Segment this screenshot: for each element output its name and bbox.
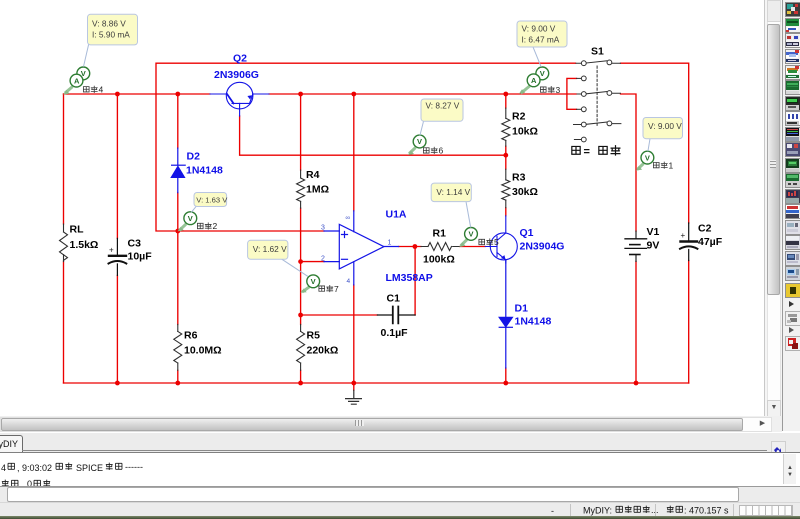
taskbar sliver: [0, 516, 800, 519]
svg-text:C3: C3: [128, 238, 142, 250]
svg-text:2: 2: [321, 256, 325, 263]
log panel mini scrollbar: [783, 454, 796, 484]
resistor R6: [174, 324, 182, 370]
probe 3 (A+V): [519, 67, 561, 95]
spreadsheet / log panel: [0, 452, 800, 488]
wire R1 to Q1 base: [460, 246, 486, 248]
results strip: [0, 487, 800, 502]
wire bottom ground rail: [64, 382, 689, 384]
node D2 top: [175, 92, 180, 97]
capacitor C2 (electrolytic): [680, 223, 697, 261]
probe 5 (V): [459, 228, 499, 248]
svg-text:S1: S1: [591, 46, 604, 58]
svg-text:R5: R5: [307, 330, 321, 342]
spreadsheet toggle icon: [771, 441, 786, 455]
resistor R2: [502, 108, 510, 146]
node opamp output: [413, 244, 418, 249]
svg-text:R3: R3: [512, 172, 526, 184]
node C3 bottom: [115, 381, 120, 386]
node V1 bottom: [634, 381, 639, 386]
svg-text:4: 4: [1, 463, 6, 473]
svg-text:4: 4: [99, 85, 104, 95]
v-scrollbar thumb: [767, 0, 781, 22]
svg-text:3: 3: [556, 85, 561, 95]
progress cells: [739, 505, 793, 516]
svg-text:RL: RL: [70, 224, 85, 236]
wire top rail y94 left (emitter side): [64, 93, 211, 95]
svg-text:C2: C2: [698, 223, 712, 235]
svg-text:5: 5: [494, 237, 499, 247]
probe 7 (V): [301, 275, 340, 294]
svg-text:+: +: [109, 246, 114, 255]
node C1 left tap: [298, 313, 303, 318]
svg-text:1: 1: [388, 240, 392, 247]
resistor RL: [60, 224, 68, 262]
svg-text:V: 9.00 V: V: 9.00 V: [648, 121, 682, 131]
node R5 bottom: [298, 381, 303, 386]
svg-text:R4: R4: [306, 169, 320, 181]
svg-text:Q2: Q2: [233, 53, 247, 65]
svg-text:R6: R6: [184, 330, 198, 342]
log line 1: [0, 453, 420, 486]
svg-text:: 470.157 s: : 470.157 s: [684, 506, 729, 516]
probe 6 (V): [408, 135, 444, 156]
svg-text:D2: D2: [187, 151, 201, 163]
svg-text:2N3906G: 2N3906G: [214, 69, 259, 81]
svg-text:C1: C1: [387, 293, 401, 305]
wire C2 bottom to ground rail: [688, 261, 690, 384]
svg-text:V: 1.63 V: V: 1.63 V: [196, 195, 228, 204]
svg-text:=: =: [584, 146, 590, 158]
svg-text:6: 6: [439, 146, 444, 156]
battery V1: [625, 231, 647, 261]
horizontal scrollbar of canvas: [0, 416, 782, 432]
wire Q2 base down and across to R2/R3 node: [240, 116, 506, 155]
probe 3 callout: [517, 21, 567, 67]
resistor R5: [297, 324, 305, 370]
svg-text:R1: R1: [433, 228, 447, 240]
label "key = space": [572, 146, 620, 155]
svg-text:4: 4: [347, 278, 351, 285]
svg-text:V: V: [540, 69, 545, 78]
resistor R4: [297, 170, 305, 208]
svg-text:1MΩ: 1MΩ: [306, 184, 329, 196]
svg-text:I: 5.90 mA: I: 5.90 mA: [92, 30, 130, 40]
svg-text:, 0: , 0: [22, 479, 32, 486]
svg-text:10kΩ: 10kΩ: [512, 126, 538, 138]
svg-text:R2: R2: [512, 111, 526, 123]
node R2 top: [503, 92, 508, 97]
probe 5 callout: [431, 183, 471, 227]
svg-text:V1: V1: [647, 226, 660, 238]
probe 1 (V): [636, 151, 674, 170]
svg-text:1N4148: 1N4148: [515, 316, 552, 328]
wire switch lower throw tie (rows 2-4): [567, 78, 577, 109]
node C3 top: [115, 92, 120, 97]
diode D2 (1N4148, cathode up): [171, 148, 185, 193]
wire D2 column: [177, 94, 179, 383]
schematic canvas: [0, 0, 765, 417]
probe 4 (A+V): [63, 67, 103, 95]
capacitor C3 (electrolytic): [109, 238, 127, 275]
wire switch row3 to V1 column: [621, 94, 637, 383]
transistor Q2 (2N3906G PNP): [210, 82, 269, 116]
svg-text:A: A: [531, 76, 537, 85]
wire switch row1 to C2 column corner: [621, 63, 689, 223]
status bar: [0, 502, 800, 517]
svg-text:1: 1: [669, 160, 674, 170]
svg-text:100kΩ: 100kΩ: [423, 254, 455, 266]
probe 7 callout: [248, 240, 308, 276]
node D1 bottom: [503, 381, 508, 386]
svg-text:7: 7: [334, 284, 339, 294]
wire D1 bottom to rail: [505, 368, 507, 383]
svg-text:V: 8.27 V: V: 8.27 V: [426, 101, 460, 111]
wire top loop y63: [156, 63, 576, 231]
svg-text:V: 9.00 V: V: 9.00 V: [522, 24, 556, 34]
svg-text:LM358AP: LM358AP: [386, 272, 433, 284]
node ground tap: [351, 381, 356, 386]
op-amp U1A LM358AP: [324, 211, 399, 285]
node R6 bottom: [175, 381, 180, 386]
svg-text:V: V: [468, 230, 473, 239]
svg-text:10.0MΩ: 10.0MΩ: [184, 345, 222, 357]
probe 4 callout: [84, 14, 138, 66]
wire RL column: [63, 94, 65, 383]
svg-text:V: V: [188, 214, 193, 223]
vertical scrollbar of canvas: [764, 0, 782, 416]
node A (D2/R6 tap to +input): [175, 229, 180, 234]
svg-text:3: 3: [321, 225, 325, 232]
svg-text:Q1: Q1: [520, 227, 534, 239]
svg-text:V: 1.62 V: V: 1.62 V: [253, 244, 287, 254]
wire opamp power column: [353, 94, 355, 383]
node opamp V+ supply: [351, 92, 356, 97]
svg-text:9V: 9V: [647, 240, 660, 252]
switch S1: [574, 60, 621, 142]
svg-text:∞: ∞: [346, 215, 351, 222]
svg-text:1.5kΩ: 1.5kΩ: [70, 239, 99, 251]
svg-text:10µF: 10µF: [128, 251, 153, 263]
svg-text:220kΩ: 220kΩ: [307, 345, 339, 357]
svg-text:U1A: U1A: [386, 209, 407, 221]
svg-text:30kΩ: 30kΩ: [512, 186, 538, 198]
capacitor C1: [377, 307, 415, 324]
svg-text:V: 1.14 V: V: 1.14 V: [436, 187, 470, 197]
svg-text:V: V: [311, 277, 316, 286]
svg-text:+: +: [681, 231, 686, 240]
node -input tap: [298, 259, 303, 264]
svg-text:I: 6.47 mA: I: 6.47 mA: [522, 35, 560, 45]
svg-text:D1: D1: [515, 303, 529, 315]
resistor R1: [421, 243, 460, 251]
svg-text:, 9:03:02: , 9:03:02: [17, 463, 52, 473]
transistor Q1 (2N3904G NPN): [485, 216, 517, 263]
svg-text:MyDIY:: MyDIY:: [583, 506, 612, 516]
h-scrollbar thumb: [1, 418, 743, 431]
svg-text:V: V: [417, 137, 422, 146]
svg-text:A: A: [74, 76, 80, 85]
svg-text:2N3904G: 2N3904G: [520, 241, 565, 253]
wire top rail y94 right of Q2: [269, 93, 576, 95]
wire R4/R5 column: [300, 94, 302, 383]
wire R2/R3 column: [505, 94, 507, 216]
wire opamp output to C1: [399, 247, 421, 316]
ground: [346, 390, 362, 404]
wire C3 column: [116, 94, 118, 383]
svg-text:V: V: [645, 153, 650, 162]
svg-text:47µF: 47µF: [698, 236, 723, 248]
probe 6 callout: [420, 99, 463, 135]
svg-text:------: ------: [125, 462, 143, 472]
wire ground stub: [353, 383, 355, 390]
active tab MyDIY: [0, 435, 23, 454]
sheet tab strip: [0, 432, 800, 453]
v-scrollbar down button: [767, 400, 781, 417]
svg-text:SPICE: SPICE: [76, 463, 103, 473]
diode D1 (1N4148, cathode down): [499, 260, 512, 368]
svg-text:V: 8.86 V: V: 8.86 V: [92, 18, 126, 28]
svg-text:0.1µF: 0.1µF: [381, 327, 409, 339]
svg-text:1N4148: 1N4148: [186, 165, 223, 177]
node R4 top: [298, 92, 303, 97]
instruments toolbar: [782, 0, 800, 431]
probe 1 callout: [643, 118, 683, 151]
probe 2 (V): [178, 212, 218, 232]
wire C1 row: [301, 314, 378, 316]
resistor R3: [502, 169, 510, 208]
svg-text:2: 2: [213, 221, 218, 231]
node R2-R3 junction: [503, 153, 508, 158]
probe 2 callout: [192, 193, 229, 213]
wire opamp minus input: [301, 261, 324, 263]
